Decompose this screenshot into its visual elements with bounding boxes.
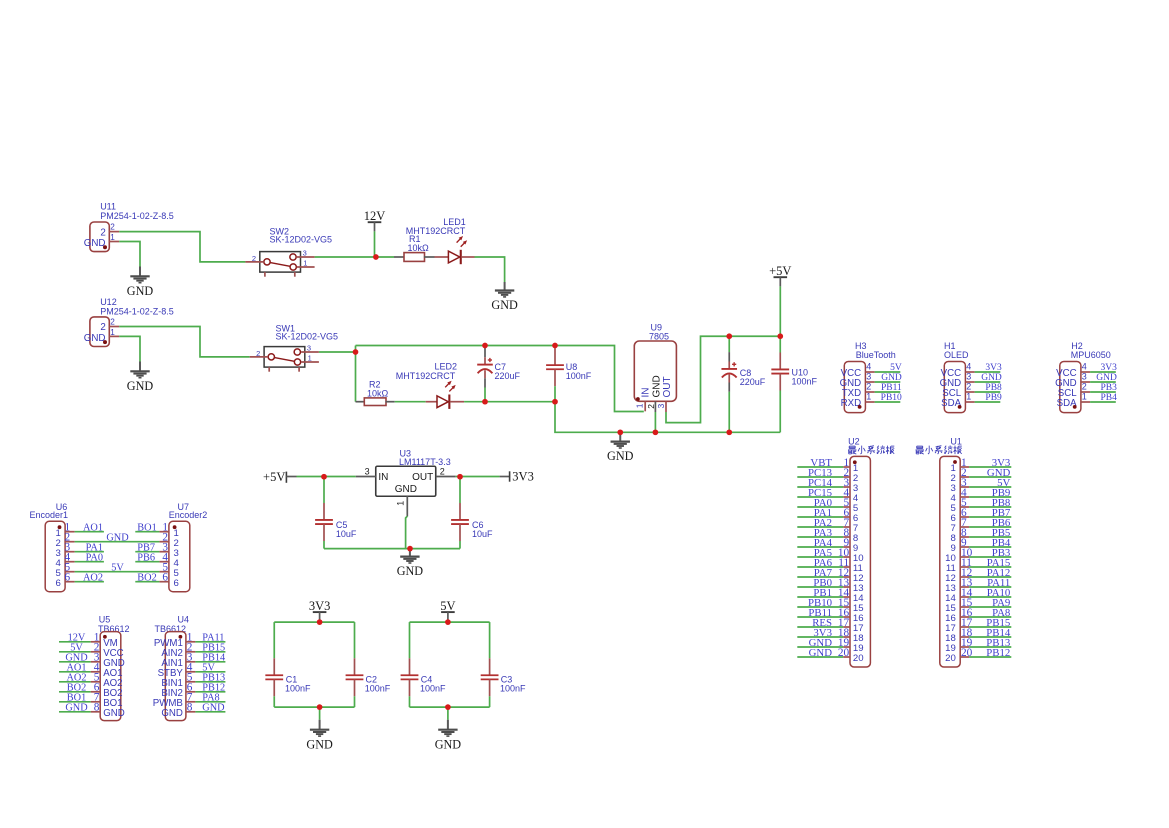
ground (U12): [127, 362, 154, 393]
svg-text:6: 6: [55, 578, 60, 589]
svg-text:10uF: 10uF: [472, 529, 493, 539]
label U1 Chinese title: [916, 446, 962, 455]
svg-text:7805: 7805: [649, 332, 669, 342]
svg-text:GND: GND: [607, 449, 634, 463]
svg-text:PA0: PA0: [86, 553, 103, 564]
svg-text:8: 8: [94, 702, 100, 714]
svg-text:3: 3: [365, 467, 370, 477]
connector H1 OLED: [940, 341, 1002, 413]
svg-text:Encoder1: Encoder1: [30, 510, 69, 520]
svg-text:3V3: 3V3: [985, 363, 1002, 373]
svg-text:1: 1: [866, 392, 871, 402]
ground (LED1): [491, 282, 518, 312]
svg-text:AO2: AO2: [83, 573, 103, 584]
svg-text:100nF: 100nF: [792, 377, 818, 387]
svg-text:4: 4: [866, 362, 871, 372]
svg-text:1: 1: [1082, 392, 1087, 402]
junction U9 pin2: [653, 429, 659, 435]
svg-text:20: 20: [961, 647, 973, 659]
svg-text:GND: GND: [127, 284, 154, 298]
capacitor C4: [401, 622, 446, 707]
svg-text:100nF: 100nF: [285, 684, 311, 694]
svg-text:2: 2: [110, 223, 115, 232]
connector U11: [84, 201, 174, 251]
junction +5V / U10: [777, 333, 783, 339]
junction C5 node: [321, 474, 327, 480]
connector H2 MPU6050: [1055, 341, 1117, 413]
svg-text:PB10: PB10: [881, 393, 902, 403]
svg-text:10kΩ: 10kΩ: [408, 243, 430, 253]
ground (3V3 loop): [306, 707, 333, 751]
svg-text:3V3: 3V3: [1101, 363, 1118, 373]
svg-text:100nF: 100nF: [500, 684, 526, 694]
svg-text:2: 2: [966, 382, 971, 392]
svg-text:2: 2: [252, 254, 256, 263]
svg-text:1: 1: [966, 392, 971, 402]
svg-text:OUT: OUT: [412, 472, 433, 483]
svg-text:U11: U11: [100, 201, 116, 211]
svg-text:6: 6: [162, 572, 168, 584]
svg-text:100nF: 100nF: [566, 371, 592, 381]
svg-text:GND: GND: [881, 373, 902, 383]
svg-text:20: 20: [838, 647, 850, 659]
svg-text:PB12: PB12: [986, 647, 1010, 659]
connector U6 Encoder1: [30, 502, 104, 592]
svg-text:IN: IN: [378, 472, 388, 483]
svg-text:GND: GND: [65, 703, 88, 714]
wire loop bottom: [410, 706, 490, 708]
wire U9 pin3 to +5V rail: [666, 336, 780, 422]
svg-text:GND: GND: [161, 708, 183, 719]
capacitor U8: [546, 346, 592, 402]
svg-text:GND: GND: [981, 373, 1002, 383]
svg-text:6: 6: [174, 578, 179, 589]
connector U12: [84, 297, 174, 347]
svg-text:8: 8: [187, 702, 193, 714]
capacitor U10: [771, 336, 817, 432]
wire U11 pin2 to SW2: [119, 232, 245, 262]
wire U12 pin1 to ground: [119, 336, 140, 361]
regulator U3 LM1117T-3.3: [356, 448, 456, 516]
wire R2 to LED2: [395, 401, 426, 403]
label U2 Chinese title: [848, 446, 894, 455]
wire U9 pin2 to GND rail: [654, 412, 656, 432]
svg-text:1: 1: [303, 259, 307, 268]
junction C7 bottom: [482, 399, 488, 405]
wire U11 pin1 to ground: [119, 242, 140, 267]
junction 5V top: [445, 619, 451, 625]
capacitor C1: [265, 622, 311, 707]
svg-text:PB4: PB4: [1101, 393, 1118, 403]
resistor R1: [394, 234, 435, 261]
wire top rail to U9: [356, 346, 644, 412]
power flag 5V: [440, 599, 455, 621]
wire encoder 5V row: [75, 571, 160, 573]
wire loop top: [274, 621, 354, 623]
connector U4 TB6612: [153, 615, 226, 721]
svg-text:U12: U12: [100, 297, 117, 307]
regulator U9 7805: [634, 323, 676, 413]
junction C6 node: [457, 474, 463, 480]
svg-text:MHT192CRCT: MHT192CRCT: [396, 371, 456, 381]
power flag 3V3: [309, 599, 331, 621]
connector U5 TB6612: [59, 615, 130, 721]
svg-text:GND: GND: [103, 708, 125, 719]
wire node vertical: [355, 346, 357, 402]
svg-text:2: 2: [440, 467, 445, 477]
wire U8 bottom to GND rail: [555, 402, 780, 433]
capacitor C2: [346, 622, 391, 707]
svg-text:MHT192CRCT: MHT192CRCT: [406, 226, 466, 236]
svg-text:PB3: PB3: [1101, 383, 1118, 393]
junction GND rail symbol: [617, 429, 623, 435]
power flag 12V: [364, 209, 386, 231]
svg-text:2: 2: [1082, 382, 1087, 392]
svg-text:GND: GND: [1096, 373, 1117, 383]
svg-text:PM254-1-02-Z-8.5: PM254-1-02-Z-8.5: [100, 307, 174, 317]
svg-text:BlueTooth: BlueTooth: [856, 350, 896, 360]
switch SW1: [250, 323, 338, 371]
ground (5V loop): [435, 707, 462, 751]
svg-text:10uF: 10uF: [336, 529, 357, 539]
ground (U11): [127, 267, 154, 298]
connector U2 (minimal system board): [797, 436, 870, 667]
wire U3 GND jog: [406, 516, 408, 548]
svg-text:3: 3: [966, 372, 971, 382]
wire +5V stem: [779, 286, 781, 336]
svg-text:U4: U4: [178, 615, 190, 625]
svg-text:3V3: 3V3: [309, 599, 331, 613]
power flag +5V (U3 input): [263, 470, 296, 484]
capacitor C3: [481, 622, 526, 707]
wire encoder GND row: [75, 541, 160, 543]
svg-text:2: 2: [100, 322, 105, 333]
wire loop top: [410, 621, 490, 623]
svg-text:+5V: +5V: [263, 470, 285, 484]
svg-text:GND: GND: [651, 375, 662, 397]
svg-text:SK-12D02-VG5: SK-12D02-VG5: [270, 235, 333, 245]
wire U3 bottom rail: [324, 548, 460, 550]
junction 3V3 bottom: [317, 704, 323, 710]
svg-text:BO1: BO1: [137, 523, 156, 534]
svg-text:3: 3: [1082, 372, 1087, 382]
svg-text:GND: GND: [809, 647, 833, 659]
svg-text:5V: 5V: [440, 599, 455, 613]
svg-text:SK-12D02-VG5: SK-12D02-VG5: [276, 332, 339, 342]
svg-text:Encoder2: Encoder2: [169, 510, 208, 520]
LED LED1: [406, 217, 475, 264]
junction U3 ground: [407, 546, 413, 552]
junction C8 top: [726, 333, 732, 339]
svg-text:+5V: +5V: [769, 264, 791, 278]
svg-text:OUT: OUT: [662, 376, 673, 397]
svg-text:2: 2: [646, 404, 656, 409]
svg-text:PB11: PB11: [881, 383, 902, 393]
connector U1 (minimal system board): [940, 436, 1012, 667]
wire SW1 pin3 to node: [319, 351, 356, 353]
LED LED2: [396, 362, 464, 409]
svg-text:2: 2: [866, 382, 871, 392]
svg-text:GND: GND: [84, 333, 106, 344]
wire SW2 pin3 to R1: [315, 256, 394, 258]
svg-text:BO2: BO2: [137, 573, 156, 584]
wire 12V stem: [374, 231, 376, 257]
svg-text:2: 2: [110, 317, 115, 326]
ground (power rail): [607, 432, 634, 463]
wire U12 pin2 to SW1: [119, 327, 250, 357]
capacitor C8: [721, 336, 765, 432]
svg-text:6: 6: [65, 572, 71, 584]
svg-text:12V: 12V: [364, 209, 386, 223]
svg-text:AO1: AO1: [83, 523, 103, 534]
svg-text:GND: GND: [106, 533, 129, 544]
svg-text:2: 2: [256, 349, 260, 358]
junction 12V/R1: [373, 254, 379, 260]
svg-text:GND: GND: [84, 238, 106, 249]
svg-text:100nF: 100nF: [420, 684, 446, 694]
power flag +5V: [769, 264, 791, 286]
wire LED2 to U8 bottom: [464, 401, 555, 403]
svg-text:20: 20: [945, 653, 956, 664]
wire U3 OUT: [456, 476, 500, 478]
svg-text:PB9: PB9: [985, 393, 1002, 403]
ground (U3): [397, 549, 424, 578]
svg-text:IN: IN: [640, 388, 651, 398]
junction 5V bottom: [445, 704, 451, 710]
svg-text:3V3: 3V3: [512, 469, 534, 483]
svg-text:1: 1: [110, 233, 115, 242]
net flag 3V3 (U3 output): [500, 469, 534, 483]
svg-text:GND: GND: [127, 379, 154, 393]
svg-text:GND: GND: [395, 484, 417, 495]
svg-text:3: 3: [303, 248, 307, 257]
svg-text:OLED: OLED: [944, 350, 969, 360]
svg-text:220uF: 220uF: [740, 377, 766, 387]
svg-text:PB8: PB8: [985, 383, 1002, 393]
svg-text:MPU6050: MPU6050: [1071, 350, 1111, 360]
connector H3 BlueTooth: [840, 341, 902, 413]
connector U7 Encoder2: [135, 502, 207, 592]
junction 3V3 top: [317, 619, 323, 625]
junction C8 bottom: [726, 429, 732, 435]
svg-text:5V: 5V: [890, 363, 902, 373]
svg-text:1: 1: [395, 501, 405, 506]
svg-text:4: 4: [966, 362, 971, 372]
svg-text:100nF: 100nF: [365, 684, 391, 694]
svg-text:4: 4: [1082, 362, 1087, 372]
junction U8 bottom: [552, 399, 558, 405]
svg-text:GND: GND: [435, 737, 462, 751]
svg-text:2: 2: [100, 227, 105, 238]
svg-text:3: 3: [656, 404, 666, 409]
svg-text:GND: GND: [202, 703, 225, 714]
svg-text:U2: U2: [848, 436, 860, 446]
svg-text:PB6: PB6: [137, 553, 155, 564]
svg-text:3: 3: [866, 372, 871, 382]
wire +5V to U3 IN: [297, 476, 356, 478]
svg-text:U1: U1: [950, 436, 962, 446]
svg-text:GND: GND: [491, 298, 518, 312]
svg-text:PM254-1-02-Z-8.5: PM254-1-02-Z-8.5: [100, 211, 174, 221]
svg-text:GND: GND: [397, 564, 424, 578]
svg-text:3: 3: [307, 343, 311, 352]
resistor R2: [356, 380, 395, 406]
capacitor C5: [315, 477, 357, 549]
svg-text:5V: 5V: [111, 563, 124, 574]
wire loop bottom: [274, 706, 354, 708]
svg-text:1: 1: [635, 403, 645, 408]
junction U8 top: [552, 343, 558, 349]
svg-text:GND: GND: [306, 737, 333, 751]
svg-text:1: 1: [308, 354, 312, 363]
junction C7 top: [482, 343, 488, 349]
svg-text:220uF: 220uF: [495, 371, 521, 381]
capacitor C7: [477, 346, 520, 402]
switch SW2: [245, 227, 332, 277]
svg-text:U5: U5: [99, 615, 111, 625]
junction SW1 node: [353, 349, 359, 355]
capacitor C6: [451, 477, 493, 549]
svg-text:20: 20: [853, 653, 864, 664]
svg-text:1: 1: [110, 328, 115, 337]
wire LED1 to ground: [475, 257, 505, 282]
